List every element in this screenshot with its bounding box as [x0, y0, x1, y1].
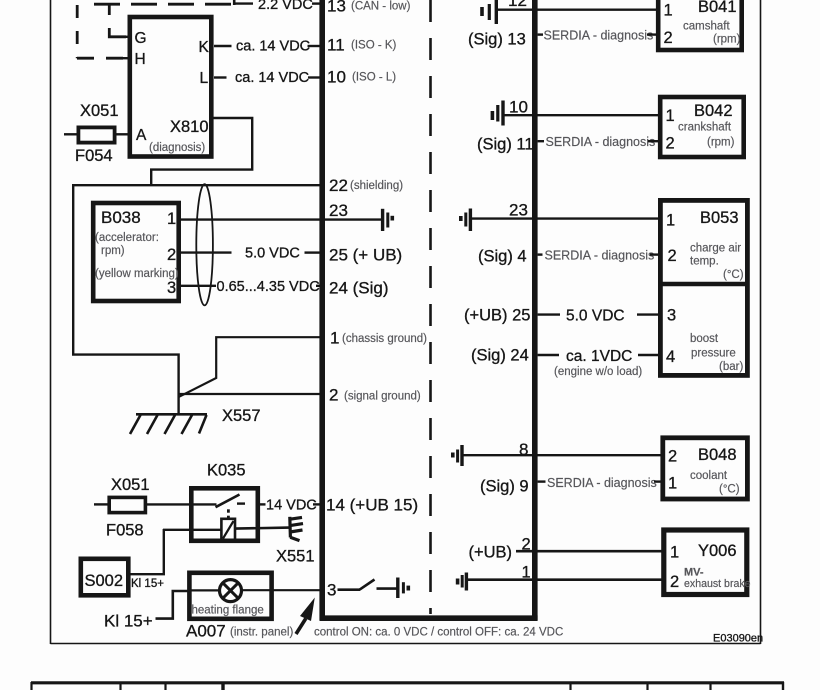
svg-text:24 (Sig): 24 (Sig) — [329, 279, 389, 298]
svg-text:2: 2 — [666, 135, 675, 153]
sensor B042 (crankshaft rpm) — [660, 97, 744, 157]
wire pin 3 to shield terminator — [377, 587, 397, 590]
shield wire from X810 right side — [151, 118, 252, 185]
wire pin 23 to B053 pin 1 — [472, 217, 661, 219]
svg-text:(°C): (°C) — [723, 269, 744, 281]
svg-text:(diagnosis): (diagnosis) — [149, 142, 205, 154]
svg-text:temp.: temp. — [690, 256, 719, 268]
svg-text:14 VDC: 14 VDC — [266, 498, 317, 514]
svg-text:(Sig) 9: (Sig) 9 — [480, 478, 529, 496]
wire pin 12 to B041 pin 1 — [498, 8, 659, 10]
svg-text:E03090en: E03090en — [713, 633, 763, 645]
svg-text:(°C): (°C) — [719, 484, 740, 496]
wire coil right lead to X551 — [235, 528, 290, 529]
svg-text:(+UB): (+UB) — [469, 544, 513, 562]
svg-text:(rpm): (rpm) — [707, 137, 735, 149]
svg-text:B053: B053 — [700, 209, 739, 227]
wire L left segment — [214, 76, 227, 78]
svg-text:1: 1 — [670, 544, 679, 562]
wire B038 pin2 right segment to pin 25 — [305, 251, 321, 253]
svg-text:(engine w/o load): (engine w/o load) — [554, 366, 642, 378]
shield dashed boundary left vertical — [76, 5, 79, 58]
svg-text:SERDIA - diagnosis: SERDIA - diagnosis — [546, 135, 656, 149]
wire pin 1 to Y006 pin 2 — [468, 578, 665, 581]
svg-text:1: 1 — [664, 2, 673, 20]
wire pin 24 tick right — [538, 354, 559, 356]
svg-text:pressure: pressure — [691, 348, 736, 360]
svg-text:boost: boost — [690, 333, 719, 345]
svg-text:control ON: ca. 0 VDC / contro: control ON: ca. 0 VDC / control OFF: ca.… — [314, 627, 563, 639]
wire B038 pin3 left segment — [179, 285, 216, 287]
svg-text:B041: B041 — [698, 0, 737, 16]
shield terminator pin 8 — [453, 445, 462, 466]
shield terminator pin 23 right bus — [461, 209, 471, 232]
shield terminator right of pin 23 — [383, 209, 393, 231]
wire pin13 stub up — [233, 0, 236, 5]
wire SERDIA to B053 pin 2 — [650, 253, 658, 255]
shield dashed stub (G branch) — [109, 4, 126, 37]
svg-text:(bar): (bar) — [719, 361, 743, 373]
indicator lamp A007 (heating flange) — [189, 573, 271, 619]
svg-text:H: H — [135, 51, 146, 68]
svg-text:1: 1 — [666, 212, 675, 230]
svg-text:B038: B038 — [101, 208, 141, 227]
svg-text:X051: X051 — [80, 102, 119, 120]
svg-text:SERDIA - diagnosis: SERDIA - diagnosis — [544, 29, 654, 43]
svg-text:exhaust brake: exhaust brake — [684, 578, 751, 590]
wire pin 8 to B048 pin 2 — [463, 454, 663, 456]
wire pin 2 to Y006 pin 1 — [516, 550, 664, 553]
ECU right bus (connector line) — [532, 0, 538, 620]
arrow to pin 3 wire — [296, 598, 315, 635]
svg-text:2: 2 — [668, 247, 677, 265]
svg-text:A: A — [136, 127, 147, 144]
svg-text:G: G — [135, 30, 147, 47]
cable shield ellipse — [196, 184, 213, 305]
svg-text:(Sig) 11: (Sig) 11 — [477, 136, 534, 154]
fuse F054 — [78, 127, 114, 142]
wire K035 to 14 VDC — [258, 503, 266, 505]
svg-text:13: 13 — [327, 0, 346, 16]
relay K035 fixed contact stub — [237, 502, 245, 504]
svg-text:rpm): rpm) — [101, 245, 125, 257]
wire 2.2 VDC right segment — [312, 2, 320, 4]
svg-text:(shielding): (shielding) — [350, 180, 403, 192]
svg-text:(accelerator:: (accelerator: — [95, 232, 159, 244]
svg-text:(CAN - low): (CAN - low) — [351, 1, 411, 13]
svg-text:(ISO - L): (ISO - L) — [352, 72, 396, 84]
svg-text:Y006: Y006 — [698, 542, 737, 560]
svg-text:ca. 14 VDC: ca. 14 VDC — [235, 70, 309, 86]
svg-text:1: 1 — [666, 107, 675, 125]
svg-text:(signal ground): (signal ground) — [344, 391, 421, 403]
wire A007 right lead to pin 3 — [242, 589, 321, 591]
sensor B053 (charge air temp / boost pressure) — [660, 200, 747, 375]
svg-text:1: 1 — [330, 329, 339, 348]
wire SERDIA tick B042 — [538, 140, 544, 142]
wire into fuse F054 — [64, 133, 78, 135]
svg-text:(Sig) 13: (Sig) 13 — [468, 31, 526, 49]
svg-text:1: 1 — [668, 475, 677, 493]
svg-text:coolant: coolant — [690, 470, 728, 482]
svg-text:(Sig) 24: (Sig) 24 — [471, 347, 529, 365]
svg-text:charge air: charge air — [690, 243, 741, 255]
svg-text:B048: B048 — [698, 446, 737, 464]
svg-text:MV-: MV- — [684, 567, 704, 579]
svg-text:X810: X810 — [170, 118, 209, 136]
wire fuse F054 to pin A — [114, 133, 130, 135]
wire pin 3 right segment — [338, 588, 361, 591]
svg-text:X051: X051 — [111, 476, 150, 494]
shield dashed boundary top horizontal — [94, 3, 234, 6]
wire SERDIA tick B041 — [538, 33, 543, 35]
wire 5.0 VDC to B053 pin 3 — [637, 313, 660, 315]
relay K035 switch blade — [216, 495, 240, 508]
svg-text:(+UB) 25: (+UB) 25 — [464, 307, 530, 325]
svg-text:B042: B042 — [694, 102, 733, 120]
relay K035 coil — [221, 519, 235, 541]
svg-text:ca. 1VDC: ca. 1VDC — [566, 348, 632, 365]
fuse F058 — [109, 497, 145, 512]
svg-text:1: 1 — [167, 210, 176, 228]
svg-text:3: 3 — [667, 307, 676, 325]
wire shielding run to pin 22 — [73, 184, 320, 186]
svg-text:K035: K035 — [207, 462, 246, 480]
svg-text:2: 2 — [668, 448, 677, 466]
svg-text:23: 23 — [509, 201, 528, 220]
switch contact on pin 3 line — [360, 580, 375, 590]
svg-text:SERDIA - diagnosis: SERDIA - diagnosis — [547, 476, 657, 490]
wire B038 pin3 right segment to pin 24 — [316, 285, 320, 287]
svg-text:Kl 15+: Kl 15+ — [104, 612, 153, 631]
wire SERDIA to B048 pin 1 — [654, 480, 663, 482]
wire L right segment to pin 10 — [308, 76, 320, 78]
svg-text:S002: S002 — [85, 572, 124, 590]
wire SERDIA to B041 pin 2 — [647, 33, 656, 35]
svg-text:2: 2 — [167, 246, 176, 264]
svg-text:ca. 14 VDC: ca. 14 VDC — [236, 39, 310, 55]
wire H into X810 — [116, 57, 128, 59]
shield terminator pin 12 — [482, 0, 496, 24]
svg-text:2: 2 — [664, 29, 673, 47]
svg-text:5.0 VDC: 5.0 VDC — [245, 246, 300, 262]
wire A007 left lead — [191, 589, 220, 591]
wire fuse F058 to relay K035 — [144, 503, 217, 505]
svg-text:A007: A007 — [186, 622, 226, 641]
shield terminator pin 1 right bus — [458, 573, 467, 591]
relay K035 box — [191, 488, 257, 541]
shield dashed boundary left corner horizontal (to H) — [77, 57, 123, 60]
svg-text:X557: X557 — [222, 407, 261, 425]
wire SERDIA tick B053 — [538, 253, 543, 255]
wire pin2 signal ground — [179, 393, 320, 395]
wire S002 to K035 coil — [130, 529, 164, 574]
svg-text:(chassis ground): (chassis ground) — [342, 333, 427, 345]
ECU bottom edge — [320, 615, 538, 621]
shield terminator pin 10 — [492, 101, 503, 126]
svg-text:23: 23 — [329, 201, 348, 220]
svg-text:2: 2 — [329, 386, 338, 405]
svg-text:F058: F058 — [106, 522, 144, 540]
svg-text:11: 11 — [327, 36, 345, 55]
svg-text:camshaft: camshaft — [683, 21, 730, 33]
svg-text:F054: F054 — [75, 147, 113, 165]
svg-text:L: L — [200, 70, 209, 87]
wire into fuse F058 — [94, 503, 108, 505]
sensor B041 (camshaft rpm) — [658, 0, 742, 50]
svg-text:SERDIA - diagnosis: SERDIA - diagnosis — [545, 249, 655, 263]
valve Y006 (MV- exhaust brake) — [664, 530, 751, 595]
ECU internal dashed divider — [429, 0, 432, 614]
svg-text:0.65...4.35 VDC: 0.65...4.35 VDC — [217, 279, 320, 295]
svg-text:2.2 VDC: 2.2 VDC — [258, 0, 313, 13]
shield terminator pin 3 — [398, 578, 409, 599]
sensor B048 (coolant temp) — [663, 438, 748, 499]
svg-text:2: 2 — [670, 573, 679, 591]
svg-text:14 (+UB 15): 14 (+UB 15) — [326, 496, 418, 515]
sensor B038 (accelerator rpm) — [93, 203, 179, 301]
wire K left segment — [214, 45, 232, 47]
svg-text:(instr. panel): (instr. panel) — [230, 627, 293, 639]
wire SERDIA tick B048 — [538, 480, 546, 482]
wire 14 VDC to pin 14 — [313, 503, 320, 505]
wire ca. 1VDC to B053 pin 4 — [638, 354, 660, 356]
wire G into X810 — [117, 36, 128, 38]
svg-text:4: 4 — [666, 348, 675, 366]
wire 2.2 VDC to pin 13 — [233, 2, 253, 4]
chassis connection X551 — [290, 517, 303, 541]
wire Kl 15+ to A007 — [156, 591, 190, 619]
wire B038 pin2 left segment — [179, 251, 232, 253]
svg-text:Kl 15+: Kl 15+ — [131, 578, 164, 590]
switch S002 — [81, 559, 129, 596]
svg-text:25 (+ UB): 25 (+ UB) — [329, 246, 402, 265]
wire shield ground drop (left) — [73, 184, 178, 414]
svg-text:10: 10 — [327, 68, 346, 87]
svg-text:3: 3 — [167, 279, 176, 297]
svg-text:(rpm): (rpm) — [713, 34, 741, 46]
svg-text:22: 22 — [329, 176, 348, 195]
wire B038 pin1 to pin 23 and shield terminator — [179, 218, 381, 220]
svg-text:heating flange: heating flange — [192, 605, 264, 617]
svg-text:(ISO - K): (ISO - K) — [351, 40, 397, 52]
svg-text:crankshaft: crankshaft — [678, 122, 732, 134]
relay K035 mechanical link dots — [227, 509, 230, 519]
bottom title-block table — [31, 682, 784, 690]
svg-text:K: K — [199, 39, 210, 56]
wire pin 10 to B042 pin 1 — [504, 114, 660, 116]
ground X557 — [130, 414, 207, 434]
wire SERDIA to B042 pin 2 — [648, 140, 658, 142]
svg-text:5.0 VDC: 5.0 VDC — [566, 308, 625, 325]
svg-text:3: 3 — [327, 581, 336, 600]
svg-text:X551: X551 — [276, 548, 315, 566]
svg-text:10: 10 — [509, 98, 528, 117]
wire coil left lead from S002 riser — [163, 529, 222, 531]
wire pin 25 tick right — [538, 313, 560, 315]
wire K right segment to pin 11 — [308, 45, 321, 47]
wire pin1 chassis ground — [179, 337, 320, 397]
svg-text:(Sig) 4: (Sig) 4 — [478, 248, 527, 266]
ECU left bus (connector line) — [319, 0, 325, 620]
connector X810 (diagnosis) — [130, 17, 212, 157]
